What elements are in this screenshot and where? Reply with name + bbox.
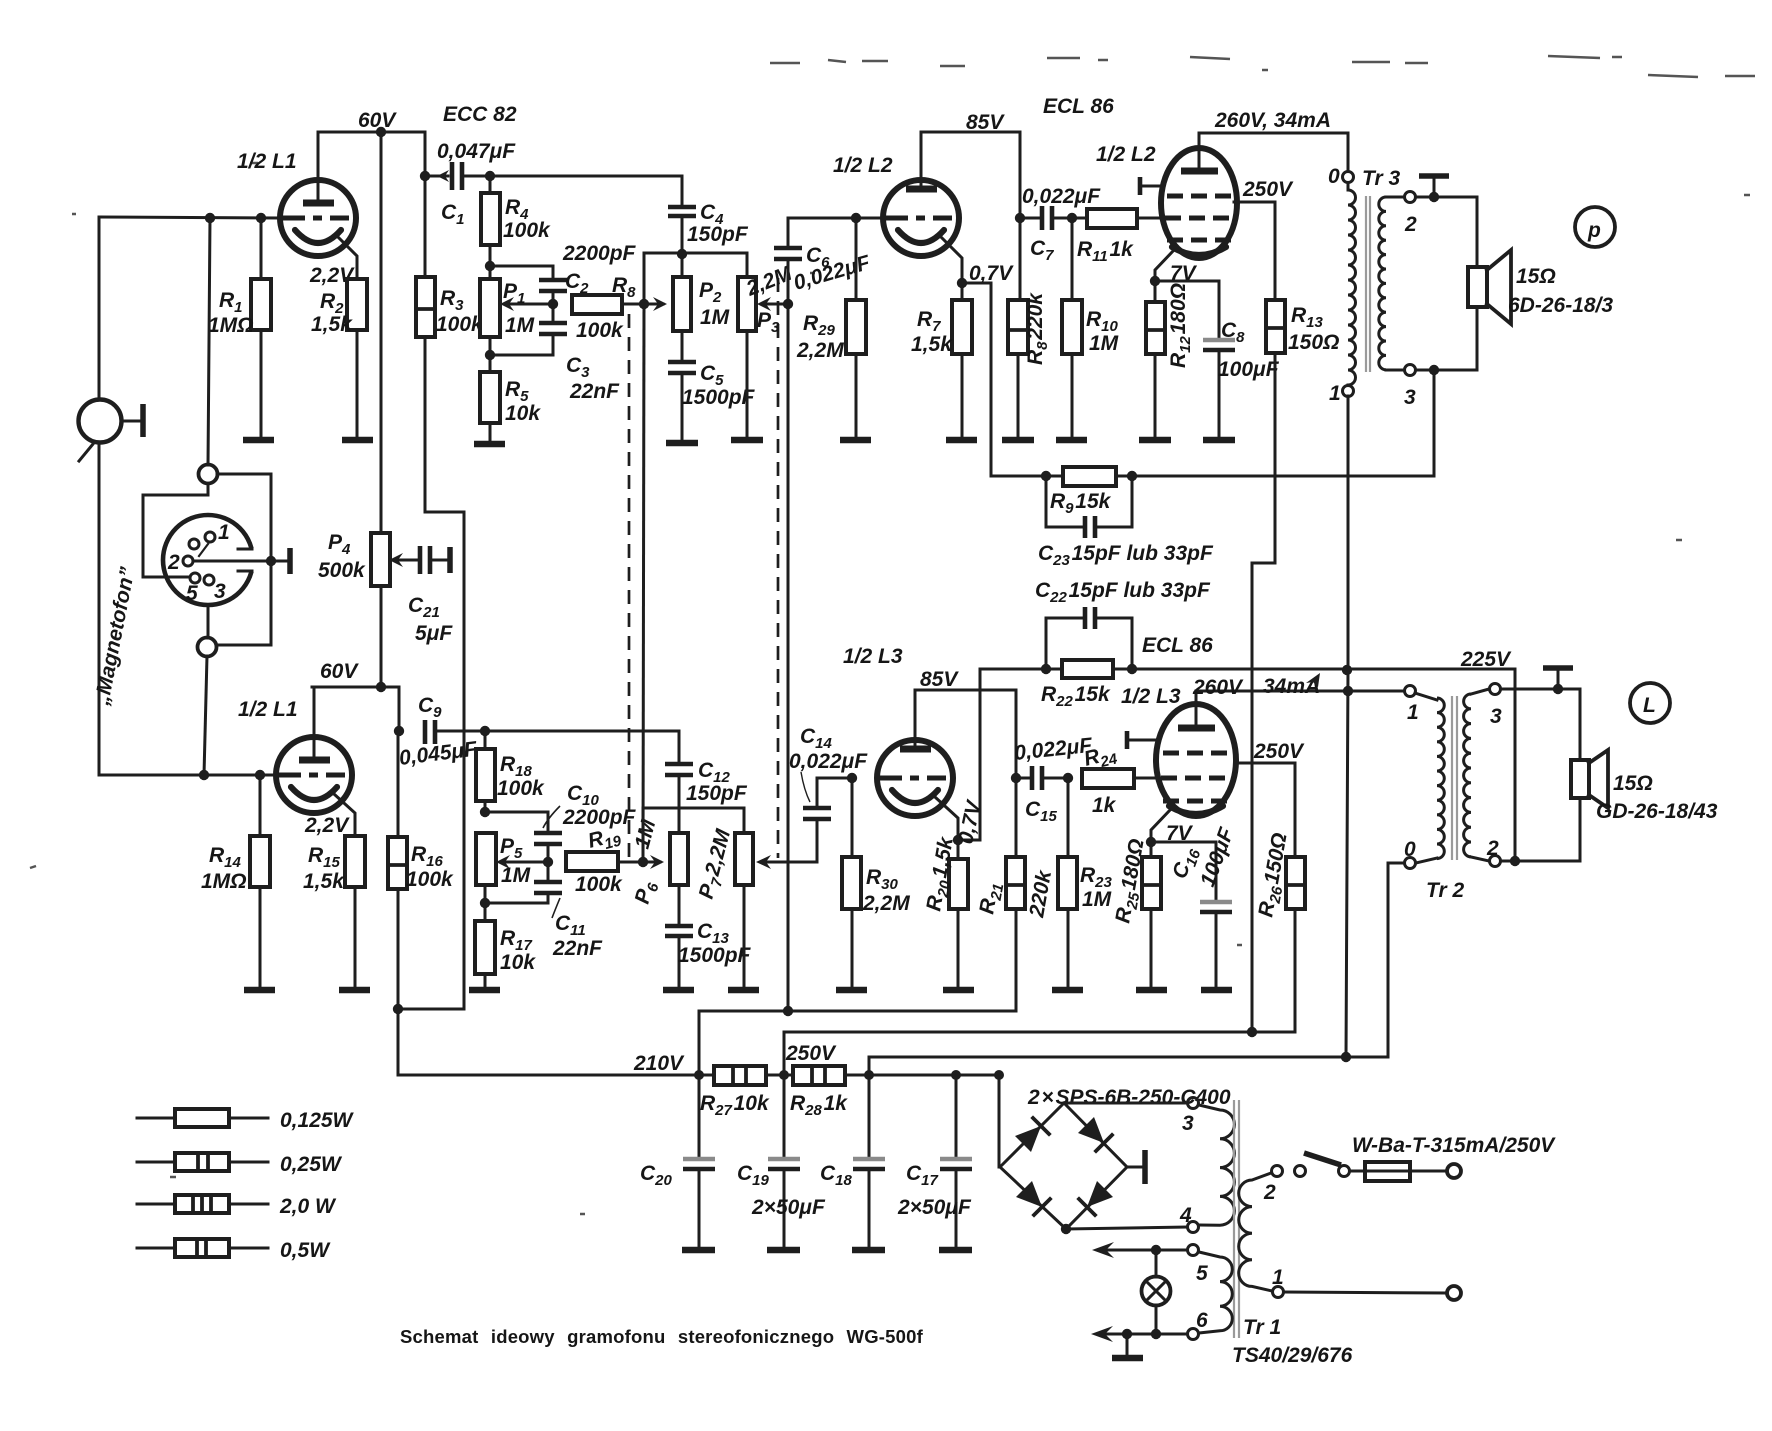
potentiometer P1 bbox=[480, 266, 553, 337]
capacitor C2 bbox=[490, 266, 567, 322]
wire: C9 row to C12 bbox=[485, 731, 679, 762]
svg-text:225V: 225V bbox=[1460, 648, 1512, 671]
value label R22 15k bbox=[1041, 683, 1111, 710]
svg-text:0,125W: 0,125W bbox=[280, 1109, 355, 1132]
DIN pin 2 bbox=[167, 551, 193, 574]
terminal 1 (Tr1 primary) bbox=[1272, 1266, 1284, 1298]
label ECL 86 bbox=[1043, 95, 1114, 118]
ground (R10) bbox=[1056, 437, 1087, 444]
node dot grid/R29 bbox=[851, 213, 861, 223]
label C19 2x50uF bbox=[737, 1162, 826, 1219]
label Tr 1 / TS40/29/676 bbox=[1232, 1316, 1353, 1367]
svg-text:100k: 100k bbox=[503, 219, 551, 242]
wire: pin2 output to plug tip bbox=[193, 548, 290, 574]
label C7 bbox=[1030, 237, 1054, 264]
ground (R23) bbox=[1052, 987, 1083, 994]
tube half L2 (triode) bbox=[883, 132, 962, 283]
ground (R2) bbox=[342, 437, 373, 444]
wire: 60V anode supply top bbox=[318, 131, 425, 134]
resistor R8b 220k (anode load) bbox=[1008, 300, 1028, 438]
value label C16 100uF (rotated) bbox=[1168, 824, 1239, 890]
capacitor C1 bbox=[425, 162, 490, 190]
resistor R9 bbox=[1046, 467, 1132, 486]
label C13 1500pF bbox=[678, 920, 752, 967]
wire: R3 down to 210V node bbox=[398, 337, 464, 1009]
svg-text:2,0 W: 2,0 W bbox=[279, 1195, 337, 1218]
label C9 0,045uF bbox=[398, 694, 479, 770]
label ECC 82 bbox=[443, 103, 517, 126]
node dot 210V/C20/R21 branch bbox=[694, 1070, 704, 1080]
node dot right of C1 bbox=[485, 171, 495, 181]
output terminal circle L bbox=[1630, 683, 1670, 723]
svg-text:1: 1 bbox=[218, 521, 230, 544]
wire: 260V,34mA anode top bbox=[1199, 133, 1348, 171]
node dot 260V rail bbox=[1343, 686, 1353, 696]
label 1/2 L1 bbox=[237, 150, 297, 173]
capacitor C3 bbox=[490, 323, 567, 355]
label C10 2200pF bbox=[543, 782, 637, 829]
value label R10 1M bbox=[1086, 308, 1119, 355]
label 2200pF bbox=[562, 242, 637, 265]
label C22 15pF lub 33pF bbox=[1035, 579, 1211, 606]
capacitor C18 (electrolytic) bbox=[853, 1075, 885, 1247]
DIN shield contact (top cup) bbox=[199, 465, 218, 484]
resistor R17 bbox=[475, 921, 495, 988]
svg-text:1MΩ: 1MΩ bbox=[201, 870, 247, 893]
label P4 500k bbox=[318, 531, 366, 582]
ground (R29) bbox=[840, 437, 871, 444]
svg-text:250V: 250V bbox=[1242, 178, 1294, 201]
resistor R21 bbox=[1006, 778, 1025, 1011]
label 15 Ohm / GD-26-18/43 bbox=[1596, 772, 1718, 823]
svg-text:ECL 86: ECL 86 bbox=[1043, 95, 1114, 118]
resistor R7 bbox=[952, 283, 972, 438]
ground (P7) bbox=[728, 987, 759, 994]
DIN shield contact (bottom cup) bbox=[198, 638, 217, 657]
svg-text:2,2M: 2,2M bbox=[796, 339, 844, 362]
node dot link/210V bus bbox=[783, 1006, 793, 1016]
label 85V (lower) bbox=[920, 668, 959, 691]
resistor R2 bbox=[347, 279, 367, 438]
diode D2 (upper right) bbox=[1078, 1117, 1112, 1151]
node dot left of C9 bbox=[394, 726, 404, 736]
node dot C15/R24/R23 bbox=[1063, 773, 1073, 783]
value label R19 100k bbox=[575, 823, 624, 896]
label C1 bbox=[441, 201, 465, 228]
label 0,047uF bbox=[437, 140, 516, 163]
node dot below P5 bbox=[480, 898, 490, 908]
ground (C13) bbox=[663, 987, 694, 994]
wire: L2 grid bbox=[788, 217, 883, 220]
microphone / pickup M bbox=[79, 400, 144, 462]
label 1/2 L2 (pentode) bbox=[1096, 143, 1156, 166]
potentiometer P7 bbox=[735, 833, 753, 988]
resistor R28 bbox=[793, 1066, 845, 1085]
svg-text:0: 0 bbox=[1328, 165, 1340, 188]
svg-text:1M: 1M bbox=[1082, 888, 1112, 911]
node dot lower 60V bbox=[376, 682, 386, 692]
value label R29 2,2M bbox=[796, 312, 844, 362]
ground (C18) bbox=[852, 1247, 885, 1254]
legend resistor 0,5W bbox=[137, 1239, 331, 1262]
svg-text:3: 3 bbox=[1490, 705, 1502, 728]
terminal 2 (Tr2 secondary bottom) bbox=[1486, 837, 1501, 867]
legend resistor 2,0W bbox=[137, 1195, 337, 1218]
wire: 260V anode to Tr2 terminal 1 bbox=[1196, 690, 1404, 693]
svg-text:1MΩ: 1MΩ bbox=[208, 314, 254, 337]
resistor R3 bbox=[416, 277, 435, 337]
node A junction dot bbox=[205, 213, 215, 223]
tube half L3 (pentode) bbox=[1151, 691, 1236, 842]
wire: left input rail (mic to upper grid) bbox=[98, 217, 101, 400]
node dot below C4 bbox=[677, 249, 687, 259]
node dot 0,7V bbox=[957, 278, 967, 288]
capacitor C15 bbox=[1016, 766, 1068, 790]
wire: P1 bottom bbox=[489, 337, 492, 372]
svg-text:2: 2 bbox=[167, 551, 180, 574]
DIN connector body (Magnetofon socket) bbox=[163, 515, 256, 605]
svg-text:1500pF: 1500pF bbox=[678, 944, 752, 967]
value label R25 180 Ohm (rotated) bbox=[1111, 837, 1152, 925]
svg-text:2: 2 bbox=[1263, 1181, 1276, 1204]
wire: screen 250V to R26 bbox=[1238, 763, 1295, 857]
terminal 2 (Tr1 primary) bbox=[1263, 1166, 1283, 1205]
svg-text:150pF: 150pF bbox=[687, 223, 749, 246]
diode D4 (lower right) bbox=[1079, 1181, 1113, 1215]
wire: 85V anode rail bbox=[921, 132, 1020, 300]
wire: screen 250V to R13 bbox=[1234, 202, 1275, 300]
svg-text:1M: 1M bbox=[501, 864, 531, 887]
value label R8 100k bbox=[576, 274, 636, 342]
terminal 6 (Tr1) bbox=[1188, 1309, 1209, 1340]
svg-text:R22 15k: R22 15k bbox=[1041, 683, 1111, 710]
node dots C18 C17 bridge bbox=[864, 1070, 1004, 1080]
label 260V, 34mA bbox=[1214, 109, 1331, 132]
value label R15 1,5k bbox=[303, 844, 345, 893]
label 60V (lower) bbox=[320, 660, 359, 683]
ground (R12) bbox=[1139, 437, 1171, 444]
svg-text:250V: 250V bbox=[1253, 740, 1305, 763]
mechanical link dashed (P3/P7 gang) bbox=[777, 278, 780, 858]
label C8 100uF bbox=[1218, 319, 1280, 381]
svg-text:100k: 100k bbox=[406, 868, 454, 891]
label Tr 2 bbox=[1426, 879, 1464, 902]
label P5 1M bbox=[500, 835, 531, 887]
potentiometer P6 bbox=[670, 833, 688, 885]
svg-text:Tr 2: Tr 2 bbox=[1426, 879, 1464, 902]
wire: channel gang link (R8 node down to lower channel) bbox=[643, 304, 644, 862]
transformer Tr2 primary winding bbox=[1415, 693, 1444, 863]
wire: bridge AC bottom to Tr1 terminal 4 bbox=[1061, 1224, 1187, 1234]
DIN pin 5 bbox=[186, 573, 200, 605]
svg-text:210V: 210V bbox=[633, 1052, 685, 1075]
wire: bracket C4 node to R8 node bbox=[644, 253, 747, 304]
potentiometer P5 bbox=[476, 833, 548, 885]
capacitor C8 (electrolytic) bbox=[1155, 281, 1235, 438]
wire: speaker L bottom to Tr2 terminal 2 bbox=[1501, 798, 1580, 866]
node dot C2/C3 mid bbox=[548, 299, 558, 309]
DIN pin 3 bbox=[204, 575, 226, 603]
ground (R30) bbox=[836, 987, 867, 994]
svg-text:100k: 100k bbox=[575, 873, 623, 896]
wire: secondary bottom to speaker P bbox=[1416, 307, 1477, 375]
svg-text:p: p bbox=[1587, 219, 1601, 242]
terminal 3 (Tr3 secondary bottom) bbox=[1404, 365, 1416, 410]
svg-text:R9 15k: R9 15k bbox=[1050, 490, 1112, 517]
label 0,7V rotated bbox=[954, 797, 986, 846]
wire: lower 60V to anode and C9 bbox=[312, 687, 399, 731]
svg-text:250V: 250V bbox=[785, 1042, 837, 1065]
chassis ground symbol (speaker L line) bbox=[1543, 668, 1573, 689]
node dot 225V/Tr3 rail bbox=[1342, 665, 1352, 675]
transformer Tr3 primary terminal 1 bbox=[1329, 382, 1354, 405]
caption bbox=[400, 1326, 924, 1347]
svg-text:Tr 1: Tr 1 bbox=[1243, 1316, 1281, 1339]
tube half L1 (lower triode) bbox=[276, 687, 355, 836]
resistor R4 bbox=[481, 176, 500, 266]
svg-text:R8 220k: R8 220k bbox=[1024, 292, 1051, 365]
wire: cup to left bracket bbox=[143, 484, 208, 577]
node dot cathode 7V (L3 pentode) bbox=[1146, 837, 1156, 847]
label C2 bbox=[565, 270, 589, 297]
svg-text:Tr 3: Tr 3 bbox=[1362, 167, 1400, 190]
wire: Tr3 terminal1 rail down bbox=[1346, 396, 1348, 1057]
label P7 2,2M (rotated) bbox=[695, 826, 740, 902]
wire: cup down to lower grid row bbox=[204, 656, 207, 775]
node dots R9 bbox=[1041, 471, 1137, 481]
resistor R15 bbox=[345, 836, 365, 988]
svg-text:5: 5 bbox=[186, 582, 198, 605]
wire: right bracket (shield tie) bbox=[216, 474, 271, 645]
mechanical link dashed (P1/P5 gang) bbox=[628, 314, 631, 866]
label 7V (lower) bbox=[1166, 822, 1194, 845]
node dot below R4 bbox=[485, 261, 495, 271]
label W-Ba-T-315mA/250V bbox=[1352, 1134, 1556, 1157]
svg-text:150Ω: 150Ω bbox=[1288, 331, 1339, 354]
resistor R26 bbox=[1286, 857, 1305, 1032]
resistor R19 bbox=[566, 852, 664, 871]
svg-text:60V: 60V bbox=[358, 109, 397, 132]
value label R2 1,5k bbox=[311, 290, 353, 336]
tube half L2 (pentode) bbox=[1155, 133, 1237, 281]
svg-text:0,5W: 0,5W bbox=[280, 1239, 331, 1262]
value label R13 150 Ohm bbox=[1288, 304, 1339, 354]
label P2 1M bbox=[699, 279, 730, 329]
resistor R16 bbox=[388, 731, 407, 1009]
svg-text:1: 1 bbox=[1329, 382, 1341, 405]
svg-text:150pF: 150pF bbox=[686, 782, 748, 805]
svg-text:1/2 L1: 1/2 L1 bbox=[237, 150, 297, 173]
svg-text:100k: 100k bbox=[436, 313, 484, 336]
svg-text:1,5k: 1,5k bbox=[303, 870, 345, 893]
capacitor C19 (electrolytic) bbox=[768, 1075, 800, 1247]
transformer Tr2 primary terminal 0 bbox=[1404, 838, 1416, 869]
svg-text:10k: 10k bbox=[500, 951, 536, 974]
transformer Tr3 core bbox=[1366, 196, 1370, 372]
label 2xSPS-6B-250-C400 bbox=[1027, 1086, 1231, 1109]
DIN pin 1 bbox=[199, 521, 230, 556]
svg-text:L: L bbox=[1643, 694, 1656, 717]
svg-text:260V, 34mA: 260V, 34mA bbox=[1214, 109, 1331, 132]
label C17 2x50uF bbox=[897, 1162, 972, 1219]
svg-text:22nF: 22nF bbox=[552, 937, 603, 960]
wire: P6/P7 top tie bbox=[643, 808, 744, 862]
ground (R8b) bbox=[1002, 437, 1034, 444]
svg-text:10k: 10k bbox=[505, 402, 541, 425]
label P3 bbox=[757, 309, 780, 336]
resistor R13 bbox=[1266, 300, 1285, 353]
capacitor C17 (electrolytic) bbox=[940, 1075, 972, 1247]
potentiometer P4 bbox=[371, 533, 417, 586]
svg-text:0,25W: 0,25W bbox=[280, 1153, 343, 1176]
svg-text:15Ω: 15Ω bbox=[1613, 772, 1653, 795]
ground (R14) bbox=[244, 987, 275, 994]
ground (P3) bbox=[731, 437, 763, 444]
wire: 250V node bbox=[766, 1074, 793, 1077]
label 2,2V (lower) bbox=[304, 814, 350, 837]
label C6 bbox=[806, 244, 830, 271]
capacitor C11 bbox=[485, 862, 562, 903]
potentiometer P2 bbox=[673, 254, 691, 331]
value label R1 1MOhm bbox=[208, 289, 254, 337]
svg-text:1/2 L3: 1/2 L3 bbox=[1121, 685, 1181, 708]
value label R4 100k bbox=[503, 196, 551, 242]
resistor R10 bbox=[1062, 218, 1082, 438]
node 60V dot bbox=[376, 127, 386, 137]
value label R12 180 Ohm (rotated) bbox=[1167, 283, 1194, 368]
value label R26 150 Ohm (rotated) bbox=[1254, 831, 1295, 919]
legend resistor 0,25W bbox=[137, 1153, 343, 1176]
ground (R15) bbox=[339, 987, 370, 994]
ground (C20) bbox=[682, 1247, 715, 1254]
svg-text:4: 4 bbox=[1179, 1204, 1192, 1227]
grid cap bar (L2 pentode g1) bbox=[1140, 177, 1162, 195]
value label R28 1k bbox=[790, 1092, 848, 1119]
svg-text:2×50μF: 2×50μF bbox=[751, 1196, 826, 1219]
label C14 0,022uF bbox=[789, 725, 868, 802]
capacitor C4 bbox=[668, 207, 696, 254]
value label R17 10k bbox=[500, 927, 536, 974]
loudspeaker L bbox=[1571, 750, 1608, 808]
label 250V (lower) bbox=[1253, 740, 1305, 763]
wire: Tr2 secondary top to speaker L bbox=[1501, 684, 1580, 760]
wire: coupling row to C4 bbox=[490, 176, 682, 204]
svg-text:60V: 60V bbox=[320, 660, 359, 683]
wire: 250V up to bus B bbox=[784, 1032, 1295, 1075]
wire: P5 bottom bbox=[484, 885, 487, 921]
svg-text:0,022μF: 0,022μF bbox=[789, 750, 868, 773]
wire: C14 to P7 wiper bbox=[756, 855, 817, 869]
value label R30 2,2M bbox=[862, 866, 910, 915]
capacitor C16 (electrolytic) bbox=[1151, 842, 1232, 988]
transformer Tr3 secondary winding bbox=[1379, 197, 1404, 370]
mains terminal (fuse side) bbox=[1447, 1164, 1461, 1178]
node dot R18 top bbox=[480, 726, 490, 736]
ground (R5) bbox=[474, 441, 505, 448]
ground (heater line) bbox=[1112, 1334, 1143, 1358]
capacitor C12 bbox=[665, 764, 693, 833]
svg-text:1/2 L1: 1/2 L1 bbox=[238, 698, 298, 721]
value label R23 1M bbox=[1080, 864, 1113, 911]
value label R7 1,5k bbox=[911, 308, 953, 356]
wire: L3 anode 85V to C15 node bbox=[915, 690, 1016, 778]
svg-text:5: 5 bbox=[1196, 1262, 1208, 1285]
label 0,7V bbox=[969, 262, 1014, 285]
resistor R23 bbox=[1058, 778, 1077, 988]
wire: mains line from terminal 1 bbox=[1284, 1292, 1446, 1293]
node dot R16/R3 junction bbox=[393, 1004, 403, 1014]
label 7V bbox=[1170, 262, 1198, 285]
ground (C16) bbox=[1201, 987, 1232, 994]
svg-text:1/2 L3: 1/2 L3 bbox=[843, 645, 903, 668]
capacitor C5 bbox=[668, 331, 696, 440]
svg-text:3: 3 bbox=[214, 580, 226, 603]
label C15 bbox=[1025, 798, 1058, 825]
svg-text:2200pF: 2200pF bbox=[562, 806, 637, 829]
label C3 22nF bbox=[566, 354, 620, 403]
fuse W-Ba-T-315mA/250V bbox=[1350, 1162, 1446, 1181]
label 250V (supply) bbox=[785, 1042, 837, 1065]
wire: bridge AC top to Tr1 terminal 3 bbox=[1064, 1102, 1187, 1105]
chassis ground symbol (speaker P line) bbox=[1419, 176, 1449, 197]
ground (C17) bbox=[939, 1247, 972, 1254]
label C21 5uF bbox=[408, 594, 453, 645]
node: upper grid row wire bbox=[99, 217, 280, 218]
label Magnetofon (rotated) bbox=[90, 565, 140, 708]
svg-text:Schemat ideowy gramofonu stere: Schemat ideowy gramofonu stereofoniczneg… bbox=[400, 1326, 924, 1347]
svg-text:6D-26-18/3: 6D-26-18/3 bbox=[1508, 294, 1613, 317]
svg-text:5μF: 5μF bbox=[415, 622, 453, 645]
svg-text:3: 3 bbox=[1182, 1112, 1194, 1135]
label 260V (lower) bbox=[1192, 676, 1244, 699]
resistor R8 bbox=[572, 295, 667, 314]
resistor R14 bbox=[250, 775, 270, 988]
transformer Tr1 primary winding 1-2 bbox=[1239, 1173, 1272, 1291]
terminal 4 (Tr1) bbox=[1179, 1204, 1199, 1233]
resistor R29 bbox=[846, 218, 866, 438]
value label R5 10k bbox=[505, 378, 541, 425]
ground (R17) bbox=[469, 987, 500, 994]
node dot below R18 bbox=[480, 807, 490, 817]
svg-text:1,5k: 1,5k bbox=[311, 313, 353, 336]
node dots R22 bbox=[1041, 664, 1137, 674]
bridge rectifier diamond bbox=[1000, 1103, 1127, 1229]
svg-text:6: 6 bbox=[1196, 1309, 1208, 1332]
svg-text:500k: 500k bbox=[318, 559, 366, 582]
svg-text:3: 3 bbox=[1404, 386, 1416, 409]
label 210V bbox=[633, 1052, 685, 1075]
label 2,2M (P3) bbox=[742, 262, 795, 301]
svg-text:1k: 1k bbox=[1092, 794, 1117, 817]
label C11 22nF bbox=[552, 898, 603, 960]
svg-text:2: 2 bbox=[1404, 213, 1417, 236]
node B junction dot bbox=[256, 213, 266, 223]
node dot P3 wiper / C6 bbox=[783, 299, 793, 309]
terminal 3 (Tr1) bbox=[1182, 1098, 1199, 1136]
wire: rail from 60V node down to P4 bbox=[380, 132, 383, 533]
svg-text:100μF: 100μF bbox=[1218, 358, 1280, 381]
resistor R1 bbox=[251, 218, 271, 438]
label 15 Ohm / 6D-26-18/3 bbox=[1508, 265, 1613, 317]
label 1/2 L2 bbox=[833, 154, 893, 177]
resistor R25 bbox=[1142, 842, 1161, 988]
legend resistor 0,125W bbox=[137, 1109, 355, 1132]
transformer Tr2 secondary winding bbox=[1464, 689, 1489, 861]
node dot 0,7V (L3 cathode) bbox=[953, 835, 963, 845]
resistor R22 bbox=[1046, 660, 1132, 678]
label 34mA with arrow bbox=[1263, 673, 1320, 698]
capacitor C14 bbox=[803, 778, 852, 862]
